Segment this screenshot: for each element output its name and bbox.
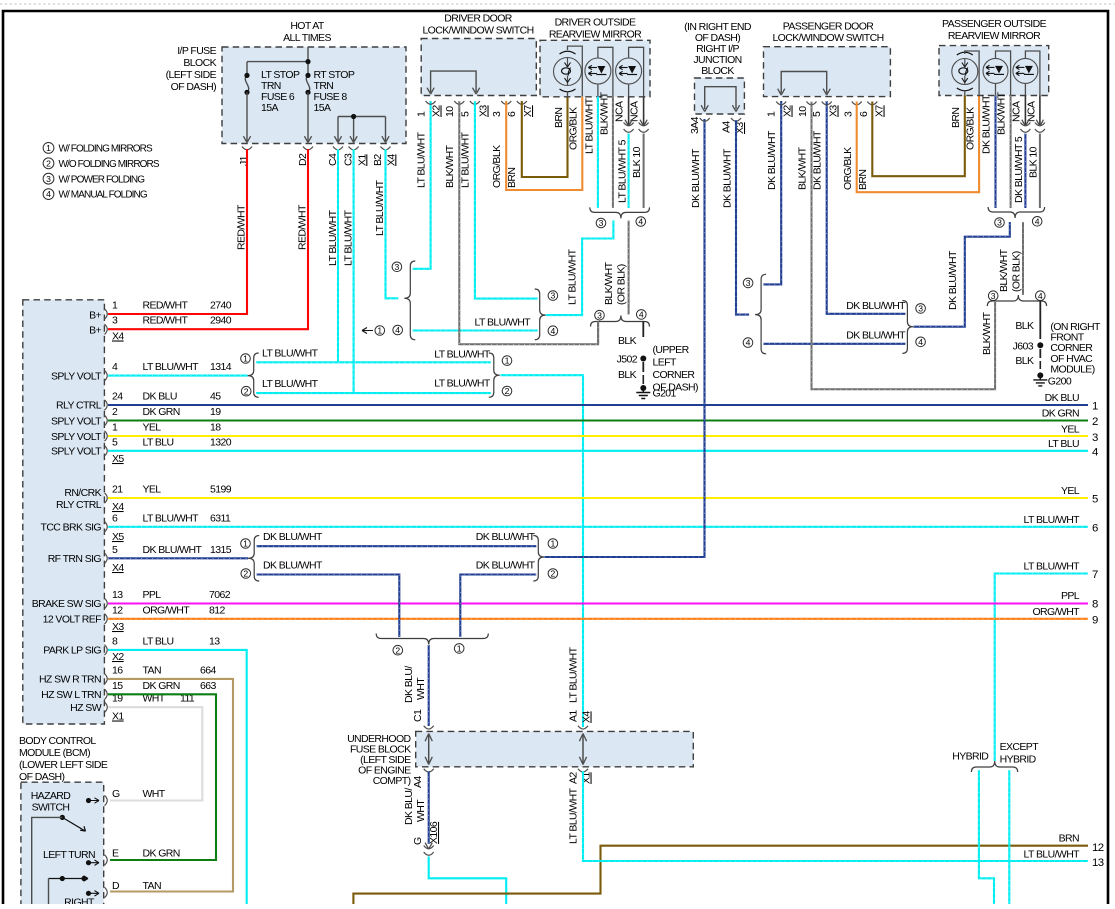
svg-text:A2: A2 [568,772,580,784]
svg-text:LT BLU/WHT: LT BLU/WHT [416,131,428,188]
svg-text:DK BLU/WHT: DK BLU/WHT [721,148,733,208]
wire BLK below J603 [1039,349,1041,358]
passenger mirror LED2 [1013,58,1038,83]
svg-text:16: 16 [112,664,123,676]
svg-text:PARK LP SIG: PARK LP SIG [43,645,101,657]
svg-text:664: 664 [200,664,216,676]
svg-text:4: 4 [638,217,643,227]
svg-text:BLK/WHT: BLK/WHT [797,146,809,190]
svg-text:DK BLU/: DK BLU/ [403,666,415,703]
svg-text:3: 3 [991,291,996,301]
svg-text:3: 3 [746,278,751,288]
svg-text:HYBRID: HYBRID [1000,754,1037,766]
svg-text:1: 1 [243,354,248,364]
svg-text:2: 2 [244,386,249,396]
svg-text:RED/WHT: RED/WHT [143,315,189,327]
note circle 4 pass mirror pins [1032,217,1042,227]
svg-text:NCA: NCA [1011,101,1023,122]
svg-text:BLK 10: BLK 10 [631,146,643,178]
svg-text:D: D [112,880,120,892]
svg-text:ORG/BLK: ORG/BLK [568,107,580,150]
note circle 4 passenger merge [916,337,926,347]
wire LT BLU X106 to bottom [429,857,507,906]
svg-text:BRN: BRN [950,108,962,128]
driver switch bottom pin connectors [426,101,436,104]
svg-text:4: 4 [1038,291,1043,301]
wire DK BLU row 1 [108,404,1088,406]
svg-text:YEL: YEL [1061,485,1080,497]
wire LT BLU/WHT except hybrid branch [1008,770,1010,905]
svg-text:YEL: YEL [1061,424,1080,436]
svg-text:BRN: BRN [857,170,869,190]
svg-text:BLK/WHT: BLK/WHT [981,311,993,355]
svg-text:RLY CTRL: RLY CTRL [56,400,102,412]
svg-text:3: 3 [112,315,118,327]
wire DK BLU/WHT passenger pin5 to merge [827,101,906,314]
svg-text:ORG/BLK: ORG/BLK [491,145,503,188]
svg-text:BRN: BRN [1059,833,1079,845]
svg-text:WHT: WHT [143,788,166,800]
BCM box [23,300,105,724]
driver mirror motor M1 [554,58,582,86]
svg-text:3: 3 [551,291,556,301]
wire fuse block right bus [338,117,386,142]
brace merge passenger mirror feed [902,301,913,354]
svg-text:5: 5 [112,544,118,556]
svg-text:3: 3 [997,218,1002,228]
svg-text:BLK: BLK [618,335,637,347]
svg-text:LT BLU/WHT: LT BLU/WHT [568,787,580,844]
svg-text:RED/WHT: RED/WHT [236,204,248,250]
wire LT BLU/WHT mirror [597,97,599,209]
svg-text:LT BLU/WHT: LT BLU/WHT [1024,849,1081,861]
driver mirror LED1 [585,58,611,84]
svg-text:TAN: TAN [143,880,161,892]
svg-text:PPL: PPL [1061,590,1080,602]
svg-text:X2: X2 [112,651,124,663]
hazard switch box [21,782,104,909]
wire BLK/WHT mirror [612,97,614,209]
wire LT BLU PARK LP SIG [108,650,247,905]
passenger door switch box [764,47,891,97]
passenger mirror box [939,46,1049,96]
svg-text:W/ POWER FOLDING: W/ POWER FOLDING [59,174,146,185]
svg-text:6: 6 [1092,523,1098,535]
svg-text:1: 1 [457,644,462,654]
svg-text:NCA: NCA [1026,101,1038,122]
svg-text:X4: X4 [112,501,124,513]
svg-text:LT BLU: LT BLU [143,635,174,647]
svg-text:DK BLU/WHT: DK BLU/WHT [263,531,323,543]
wire ORG/BLK passenger pin3 to mirror [857,96,979,193]
svg-text:3: 3 [1092,432,1098,444]
svg-text:4: 4 [395,325,400,335]
svg-text:12: 12 [1092,842,1104,854]
svg-text:8: 8 [112,635,118,647]
note circle 3 at driver merge [548,291,558,301]
svg-text:BLK/WHT: BLK/WHT [603,261,615,305]
splice J502 [640,356,646,362]
svg-text:LT BLU/WHT: LT BLU/WHT [584,97,596,154]
note circle 3 at driver split [392,262,402,272]
svg-text:HZ SW R TRN: HZ SW R TRN [39,674,101,686]
junction block box [695,78,745,114]
svg-text:3: 3 [395,262,400,272]
hazard pin G [86,798,91,803]
wire BRN driver pin6 to mirror [522,97,568,178]
page top dotted border [0,3,1115,5]
passenger mirror motor wiring [965,51,979,96]
svg-text:X5: X5 [112,531,124,543]
svg-text:X2: X2 [431,105,443,117]
driver door switch box [421,39,536,96]
svg-text:J502: J502 [617,354,638,366]
note circle 4 pass return [1036,291,1046,301]
svg-text:RIGHT: RIGHT [64,897,95,905]
brace passenger mirror pins [988,207,1045,218]
wire ORG/WHT row 9 [108,618,1088,620]
brace passenger mirror return options [987,295,1046,306]
svg-text:J1: J1 [238,155,250,166]
svg-text:DK BLU/WHT: DK BLU/WHT [812,130,824,190]
note circle 3 pass return [988,291,998,301]
svg-text:1: 1 [551,539,556,549]
svg-text:3: 3 [599,218,604,228]
svg-text:1: 1 [46,143,51,153]
svg-text:13: 13 [209,635,220,647]
svg-text:(OR BLK): (OR BLK) [616,264,628,305]
svg-text:DK GRN: DK GRN [143,848,180,860]
svg-text:E: E [112,848,119,860]
svg-text:2: 2 [112,406,118,418]
note circle 3 passenger split [743,278,753,288]
svg-text:3A4: 3A4 [689,116,701,134]
wire NCA stub 2 [643,97,645,127]
svg-text:X1: X1 [356,154,368,166]
note circle 2 SPLY merge [502,386,512,396]
svg-text:BLK: BLK [618,369,637,381]
brace split RF TRN [248,536,259,582]
svg-text:SPLY VOLT: SPLY VOLT [51,370,102,382]
note circle 2 RF split [241,569,251,579]
svg-text:REARVIEW MIRROR: REARVIEW MIRROR [948,30,1041,42]
svg-text:ORG/BLK: ORG/BLK [842,147,854,190]
svg-text:DK BLU/WHT: DK BLU/WHT [981,94,993,154]
svg-text:NCA: NCA [614,101,626,122]
svg-text:3: 3 [597,310,602,320]
wire RED/WHT J1 to BCM B+ pin 1 [108,149,247,314]
svg-text:TAN: TAN [143,664,161,676]
svg-text:2: 2 [505,386,510,396]
svg-text:BRN: BRN [553,108,565,128]
brace merge driver mirror feed [535,289,546,340]
svg-text:BLK/WHT: BLK/WHT [998,248,1010,292]
driver mirror box [540,40,650,97]
wire DK BLU/WHT 5 pass mirror [1024,134,1026,209]
legend notes 1-4 [43,143,54,154]
svg-text:OF DASH): OF DASH) [19,771,64,783]
fuse block bottom pin connectors [242,147,252,150]
svg-text:DK GRN: DK GRN [1042,408,1079,420]
svg-text:X4: X4 [112,331,124,343]
svg-text:1: 1 [112,300,118,312]
svg-text:REARVIEW MIRROR: REARVIEW MIRROR [549,29,642,41]
svg-text:X4: X4 [112,562,124,574]
wire DK GRN row 2 [108,419,1088,421]
svg-text:DRIVER OUTSIDE: DRIVER OUTSIDE [555,17,636,29]
wire LT BLU/WHT B2 to option brace [386,149,399,298]
hazard lower contact [60,876,65,881]
svg-text:LT BLU/WHT: LT BLU/WHT [1024,561,1081,573]
svg-text:HAZARD: HAZARD [31,790,72,802]
svg-text:X3: X3 [112,621,124,633]
svg-text:1314: 1314 [210,361,232,373]
svg-text:SPLY VOLT: SPLY VOLT [51,415,102,427]
svg-text:12 VOLT REF: 12 VOLT REF [43,614,102,626]
brace driver mirror pins [590,207,650,218]
note circle 4 driver mirror pins [636,217,646,227]
svg-text:HZ SW: HZ SW [70,702,102,714]
svg-text:8: 8 [1092,599,1098,611]
junction block pin connectors [700,118,710,121]
svg-text:1: 1 [416,111,428,117]
svg-text:HOT AT: HOT AT [290,20,325,32]
svg-text:LT BLU/WHT: LT BLU/WHT [342,209,354,266]
svg-text:MODULE (BCM): MODULE (BCM) [19,747,90,759]
svg-text:LT BLU/WHT 5: LT BLU/WHT 5 [617,139,629,203]
svg-text:2: 2 [243,569,248,579]
note circle 1 RF split [241,539,251,549]
wire LT BLU/WHT row 6 [108,526,1088,528]
ground G201 [640,385,646,391]
brace driver mirror return options [591,316,650,327]
svg-text:13: 13 [112,589,123,601]
wire WHT HZ SW to hazard G [108,707,202,800]
svg-text:B2: B2 [372,154,384,166]
svg-text:LT BLU/WHT: LT BLU/WHT [262,378,319,390]
svg-text:(LOWER LEFT SIDE: (LOWER LEFT SIDE [19,759,108,771]
svg-text:I/P FUSE: I/P FUSE [177,45,216,57]
svg-text:X1: X1 [112,711,124,723]
svg-text:1: 1 [1092,401,1098,413]
hazard pin D RIGHT [86,891,91,896]
wire BLK/WHT pass return elbow [811,301,996,389]
wire DK BLU/WHT RF TRN from BCM [108,557,248,559]
wire DK BLU/WHT RF branch2 right segment [460,575,536,638]
svg-text:COMPT): COMPT) [373,775,411,787]
svg-text:5: 5 [460,111,472,117]
wire BLK/WHT pass mirror [1010,96,1012,209]
note circle 4 driver return [637,310,647,320]
svg-text:1: 1 [243,539,248,549]
wire LT BLU/WHT C3 to supply branch 2 [353,149,355,393]
wire DK BLU/WHT RF branch1 [257,545,537,547]
svg-text:G: G [112,788,120,800]
wire DK BLU/WHT junction A4 to passenger brace [736,120,749,315]
svg-text:G: G [412,837,424,845]
svg-text:2: 2 [395,645,400,655]
svg-text:NCA: NCA [629,101,641,122]
svg-text:3: 3 [491,111,503,117]
brace merge RF TRN [533,536,544,582]
svg-text:PASSENGER OUTSIDE: PASSENGER OUTSIDE [942,18,1047,30]
driver mirror motor wiring [568,46,583,96]
svg-text:LT BLU/WHT: LT BLU/WHT [1024,514,1081,526]
svg-text:10: 10 [444,106,456,117]
svg-text:SPLY VOLT: SPLY VOLT [51,446,102,458]
svg-text:1320: 1320 [210,436,232,448]
svg-text:12: 12 [112,604,123,616]
underhood fuse block box [416,731,694,766]
wire LT BLU/WHT driver mirror feed [546,221,614,316]
I/P fuse block box [222,47,406,144]
svg-text:4: 4 [1035,216,1040,226]
wire DK BLU/WHT to underhood C1 [428,645,430,726]
svg-text:LOCK/WINDOW SWITCH: LOCK/WINDOW SWITCH [422,25,533,37]
svg-text:4: 4 [639,310,644,320]
svg-text:DK BLU/WHT: DK BLU/WHT [690,148,702,208]
svg-text:1315: 1315 [210,544,232,556]
wire BLK to ground J603 [1039,301,1041,339]
svg-text:2940: 2940 [210,315,232,327]
note circle 2 underhood feed [393,645,403,655]
svg-text:663: 663 [200,680,216,692]
svg-text:OF DASH): OF DASH) [653,382,698,394]
svg-text:RLY CTRL: RLY CTRL [56,499,102,511]
wire LT BLU/WHT option4 bypass [413,329,538,331]
wire PPL row 8 [108,602,1088,604]
svg-text:4: 4 [551,326,556,336]
underhood pass-through A1-A2 [578,726,588,729]
passenger switch bottom pin connectors [776,102,786,105]
svg-text:OF DASH): OF DASH) [171,81,216,93]
svg-text:3: 3 [843,111,855,117]
svg-text:2740: 2740 [210,300,232,312]
svg-text:SPLY VOLT: SPLY VOLT [51,431,102,443]
svg-text:15A: 15A [314,102,331,114]
svg-text:W/ MANUAL FOLDING: W/ MANUAL FOLDING [59,190,148,201]
svg-text:X4: X4 [385,154,397,166]
svg-text:HYBRID: HYBRID [952,751,989,763]
wire NCA stub 1 [628,97,630,127]
svg-text:J603: J603 [1013,341,1034,353]
wire BLK/WHT return to switch pin10 stub [597,322,599,345]
svg-text:BLK: BLK [1015,355,1034,367]
svg-text:2: 2 [46,158,51,168]
svg-text:PASSENGER DOOR: PASSENGER DOOR [783,21,875,33]
hazard switch arm [60,815,65,820]
svg-text:B+: B+ [89,309,101,321]
svg-text:BRAKE SW SIG: BRAKE SW SIG [32,598,102,610]
wire LT BLU/WHT underhood A2 to row 13 [583,771,1088,861]
wire fuse F6 output to J1 [246,92,248,141]
svg-text:C1: C1 [412,709,424,722]
svg-text:7: 7 [1092,569,1098,581]
svg-text:LT BLU/WHT: LT BLU/WHT [460,131,472,188]
svg-text:DK BLU/WHT: DK BLU/WHT [766,130,778,190]
svg-text:2: 2 [1092,416,1098,428]
junction block internal wire [705,87,736,109]
svg-text:5: 5 [811,111,823,117]
svg-text:RN/CRK: RN/CRK [64,487,101,499]
svg-text:CORNER: CORNER [653,369,696,381]
svg-text:6311: 6311 [210,512,231,524]
svg-text:LT BLU: LT BLU [143,436,174,448]
svg-text:4: 4 [918,337,923,347]
wire DK BLU/WHT pass mirror [994,96,996,209]
svg-text:DK BLU/WHT: DK BLU/WHT [846,300,906,312]
passenger switch internal jumper [781,72,827,94]
svg-text:A1: A1 [568,710,580,722]
note circle 1 SPLY split [241,354,251,364]
splice J603 [1037,342,1043,348]
wire NCA stub 2 pass [1039,96,1041,127]
svg-text:LT BLU/WHT: LT BLU/WHT [434,349,491,361]
wire LT BLU/WHT supply to underhood A1 [500,375,583,727]
svg-text:X5: X5 [112,453,124,465]
svg-text:5: 5 [1092,494,1098,506]
svg-text:LT BLU/WHT: LT BLU/WHT [262,347,319,359]
svg-text:LEFT TURN: LEFT TURN [43,849,95,861]
wire LT BLU/WHT row 7 [995,574,1088,762]
svg-text:45: 45 [210,391,221,403]
svg-text:RED/WHT: RED/WHT [143,300,189,312]
wire LT BLU/WHT supply branch2 [256,392,491,394]
svg-text:812: 812 [209,604,225,616]
svg-text:4: 4 [112,361,118,373]
hazard switch common wire [32,817,63,905]
svg-text:2: 2 [551,569,556,579]
driver mirror LED2 [616,58,642,84]
note circle 3 driver mirror pins [596,218,606,228]
svg-text:A4: A4 [412,776,424,788]
svg-text:DK BLU/WHT: DK BLU/WHT [476,531,536,543]
svg-text:ALL TIMES: ALL TIMES [283,32,331,44]
svg-text:B+: B+ [89,325,101,337]
svg-text:LT BLU: LT BLU [1048,438,1079,450]
note circle 2 RF merge [548,569,558,579]
svg-text:7062: 7062 [209,589,231,601]
wire DK BLU/WHT passenger mirror feed [913,222,1009,327]
wire BLK 10 pass mirror [1039,134,1041,209]
wire YEL row 5 [108,497,1088,499]
note circle 1 RF merge [548,539,558,549]
svg-text:LOCK/WINDOW SWITCH: LOCK/WINDOW SWITCH [772,32,883,44]
svg-text:X2: X2 [782,105,794,117]
svg-text:TCC BRK SIG: TCC BRK SIG [41,522,102,534]
brace split SPLY VOLT [248,353,259,397]
bracket merge underhood feed [376,634,488,645]
svg-text:LT BLU/WHT: LT BLU/WHT [566,248,578,305]
svg-text:YEL: YEL [143,422,162,434]
wire DK BLU/WHT option4 passenger bypass [763,343,905,345]
svg-text:10: 10 [797,106,809,117]
svg-text:BLK: BLK [1015,320,1034,332]
svg-text:LT BLU/WHT: LT BLU/WHT [568,646,580,703]
svg-text:DK BLU/WHT: DK BLU/WHT [143,544,203,556]
svg-text:BLOCK: BLOCK [183,57,216,69]
wire DK GRN HZ SW L TRN to hazard E [108,694,216,860]
svg-text:W/ FOLDING MIRRORS: W/ FOLDING MIRRORS [59,144,153,155]
svg-text:X7: X7 [874,105,886,117]
svg-text:BLK 10: BLK 10 [1028,146,1040,178]
svg-text:LT BLU/WHT: LT BLU/WHT [327,209,339,266]
svg-text:19: 19 [210,406,221,418]
brace merge SPLY VOLT [489,353,500,397]
svg-text:ORG/BLK: ORG/BLK [965,107,977,150]
svg-text:X3: X3 [478,105,490,117]
svg-text:18: 18 [210,422,221,434]
